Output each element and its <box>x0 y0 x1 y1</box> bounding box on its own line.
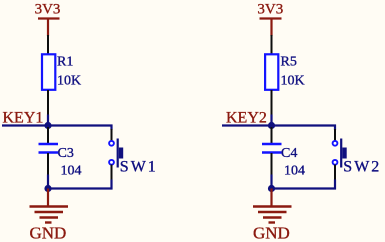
switch SW1 button <box>119 148 123 159</box>
switch SW2 pin 1 lead <box>334 129 336 141</box>
svg-text:SW2: SW2 <box>343 159 381 176</box>
svg-text:10K: 10K <box>281 74 305 89</box>
wire bottom horizontal (right) <box>272 187 337 189</box>
capacitor C3 bottom plate <box>39 151 59 153</box>
capacitor C4 pin 1 (top) <box>271 127 273 144</box>
capacitor C4 pin 2 (bottom) <box>271 153 273 176</box>
switch SW1 pin 2 terminal circle <box>109 160 114 165</box>
svg-text:3V3: 3V3 <box>35 2 61 18</box>
ground bar 2 (left) <box>35 211 64 213</box>
capacitor C3 pin 1 (top) <box>47 127 49 144</box>
svg-text:C3: C3 <box>58 146 74 161</box>
ground bar 4 (right) <box>269 221 276 223</box>
switch SW1 actuator bar <box>117 139 119 168</box>
wire from C4 pin 2 to bottom node (right) <box>270 175 272 190</box>
svg-text:GND: GND <box>253 224 290 242</box>
capacitor C4 bottom plate <box>262 151 282 153</box>
svg-text:C4: C4 <box>281 146 297 161</box>
svg-text:10K: 10K <box>57 74 81 89</box>
wire net KEY1 horizontal <box>2 124 113 126</box>
capacitor C3 top plate <box>39 143 59 145</box>
resistor R5 pin 2 (bottom) <box>271 90 273 116</box>
capacitor C3 pin 2 (bottom) <box>47 153 49 176</box>
switch SW2 pin 2 terminal circle <box>333 160 338 165</box>
resistor R5 pin 1 (top) <box>271 35 273 55</box>
wire switch branch top (left) <box>110 125 112 131</box>
wire switch branch top (right) <box>334 125 336 131</box>
ground stem (right) <box>270 189 272 207</box>
switch SW2 actuator bar <box>340 139 342 168</box>
resistor R1 pin 1 (top) <box>47 35 49 55</box>
power port 3V3 stem (right) <box>270 19 272 37</box>
svg-text:R5: R5 <box>281 55 297 70</box>
switch SW2 button <box>342 148 346 159</box>
ground bar 1 (left) <box>30 205 69 207</box>
ground bar 2 (right) <box>258 211 287 213</box>
ground bar 1 (right) <box>253 205 292 207</box>
svg-text:104: 104 <box>284 164 305 179</box>
resistor R1 pin 2 (bottom) <box>47 90 49 116</box>
ground bar 3 (left) <box>40 216 59 218</box>
switch SW2 pin 1 terminal circle <box>333 141 338 146</box>
ground bar 3 (right) <box>263 216 282 218</box>
svg-text:3V3: 3V3 <box>257 2 283 18</box>
power port 3V3 stem (left) <box>47 19 49 37</box>
svg-text:104: 104 <box>61 164 82 179</box>
capacitor C4 top plate <box>262 143 282 145</box>
switch SW2 pin 2 lead <box>334 165 336 182</box>
svg-text:R1: R1 <box>57 55 73 70</box>
wire bottom horizontal (left) <box>48 187 113 189</box>
power port 3V3 bar symbol (left) <box>38 17 60 19</box>
ground stem (left) <box>47 189 49 207</box>
power port 3V3 bar symbol (right) <box>260 17 282 19</box>
wire from R5 pin 2 to node KEY2 <box>270 115 272 127</box>
wire switch branch bottom (right) <box>334 180 336 190</box>
svg-text:GND: GND <box>30 224 67 242</box>
wire from C3 pin 2 to bottom node (left) <box>47 175 49 190</box>
switch SW1 pin 2 lead <box>111 165 113 182</box>
switch SW1 pin 1 terminal circle <box>109 141 114 146</box>
resistor R1 body <box>42 54 55 90</box>
wire from R1 pin 2 to node KEY1 <box>47 115 49 127</box>
junction bottom node (right) <box>268 185 275 192</box>
junction node KEY1 <box>44 122 51 129</box>
svg-text:KEY1: KEY1 <box>3 110 44 127</box>
switch SW1 pin 1 lead <box>111 129 113 141</box>
junction node KEY2 <box>268 122 275 129</box>
wire net KEY2 horizontal <box>222 124 336 126</box>
ground bar 4 (left) <box>45 221 52 223</box>
wire switch branch bottom (left) <box>110 180 112 190</box>
svg-text:KEY2: KEY2 <box>226 110 267 127</box>
svg-text:SW1: SW1 <box>120 159 158 176</box>
resistor R5 body <box>265 54 278 90</box>
junction bottom node (left) <box>44 185 51 192</box>
